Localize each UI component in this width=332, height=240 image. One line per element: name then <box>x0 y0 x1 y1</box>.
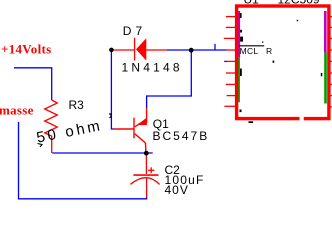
svg-text:R3: R3 <box>69 98 85 112</box>
svg-text:U1: U1 <box>244 0 260 6</box>
svg-text:MCL: MCL <box>240 46 259 56</box>
svg-text:masse: masse <box>0 103 34 118</box>
svg-text:1N4148: 1N4148 <box>122 61 183 75</box>
svg-text:12C509: 12C509 <box>278 0 320 6</box>
svg-text:D7: D7 <box>123 24 146 38</box>
svg-text:40V: 40V <box>165 183 189 197</box>
svg-text:+14Volts: +14Volts <box>1 42 52 57</box>
svg-text:R: R <box>266 46 272 56</box>
svg-text:BC547B: BC547B <box>153 129 210 143</box>
